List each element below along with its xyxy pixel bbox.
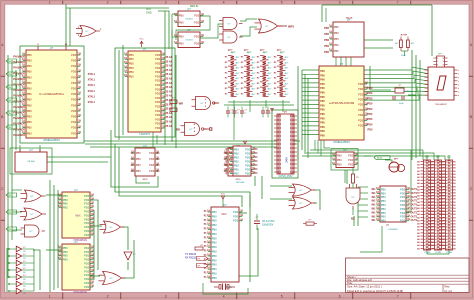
svg-text:PB0: PB0 xyxy=(27,98,32,102)
svg-text:PA0/AD0: PA0/AD0 xyxy=(13,116,25,120)
svg-text:PD0: PD0 xyxy=(245,167,251,171)
svg-text:PB0: PB0 xyxy=(334,37,339,41)
svg-text:PB0: PB0 xyxy=(63,194,68,198)
svg-text:PB0: PB0 xyxy=(212,245,217,249)
svg-text:P00: P00 xyxy=(320,126,325,129)
svg-text:XTAL1: XTAL1 xyxy=(88,90,96,93)
svg-text:Id: 1/1: Id: 1/1 xyxy=(445,289,453,293)
svg-text:PD0: PD0 xyxy=(84,273,90,277)
svg-text:4N35: 4N35 xyxy=(235,179,241,181)
svg-text:1n: 1n xyxy=(237,112,239,114)
svg-text:PB0: PB0 xyxy=(324,33,329,36)
svg-text:PB0: PB0 xyxy=(212,263,217,267)
svg-text:1: 1 xyxy=(49,295,51,299)
svg-text:1: 1 xyxy=(49,0,51,4)
svg-text:PB0: PB0 xyxy=(27,103,32,107)
svg-text:PB0: PB0 xyxy=(27,87,32,91)
svg-text:PB0: PB0 xyxy=(27,126,32,130)
svg-text:74HC573: 74HC573 xyxy=(139,132,151,136)
svg-text:25 A8: 25 A8 xyxy=(166,69,173,72)
svg-text:PB0: PB0 xyxy=(212,223,217,227)
svg-text:PD0: PD0 xyxy=(245,163,251,167)
svg-text:P00: P00 xyxy=(320,83,325,86)
svg-text:PB0: PB0 xyxy=(337,162,342,166)
svg-text:25 A8: 25 A8 xyxy=(166,86,173,89)
svg-text:PD0: PD0 xyxy=(84,229,90,233)
svg-text:Title:: Title: xyxy=(347,281,353,285)
svg-text:PB0: PB0 xyxy=(129,57,134,61)
svg-text:CP 4u7-25V: CP 4u7-25V xyxy=(262,221,275,223)
svg-text:ULN2803: ULN2803 xyxy=(388,229,398,231)
svg-text:B: B xyxy=(470,115,472,119)
svg-text:PD0: PD0 xyxy=(358,98,364,102)
svg-text:PB0: PB0 xyxy=(212,250,217,254)
svg-text:PB0: PB0 xyxy=(27,120,32,124)
svg-text:PD0: PD0 xyxy=(155,113,161,117)
svg-text:1A: 1A xyxy=(130,152,133,155)
svg-text:PD0: PD0 xyxy=(149,163,155,167)
svg-text:PD0: PD0 xyxy=(155,105,161,109)
svg-text:PB0: PB0 xyxy=(234,147,239,151)
svg-text:74HC4051N: 74HC4051N xyxy=(73,291,87,294)
svg-text:25 A8: 25 A8 xyxy=(166,121,173,124)
svg-text:IN1: IN1 xyxy=(372,215,377,218)
svg-text:U?: U? xyxy=(143,47,147,51)
svg-text:PB0: PB0 xyxy=(212,228,217,232)
svg-text:CONN: CONN xyxy=(424,252,430,254)
svg-text:6: 6 xyxy=(339,295,341,299)
svg-text:XTAL1: XTAL1 xyxy=(88,101,96,104)
svg-text:IN1: IN1 xyxy=(372,188,377,191)
svg-text:PB0: PB0 xyxy=(324,39,329,42)
svg-text:PB0: PB0 xyxy=(129,70,134,74)
svg-text:PD0: PD0 xyxy=(368,87,373,90)
svg-text:PD0: PD0 xyxy=(84,258,90,262)
svg-text:78L05: 78L05 xyxy=(346,17,353,20)
svg-text:U?: U? xyxy=(187,28,191,32)
svg-text:U?: U? xyxy=(50,46,54,50)
svg-text:PB0: PB0 xyxy=(334,25,339,29)
svg-text:25 A8: 25 A8 xyxy=(166,82,173,85)
svg-text:P00: P00 xyxy=(320,135,325,138)
svg-text:RX RS232: RX RS232 xyxy=(185,257,197,260)
svg-text:PD0: PD0 xyxy=(155,83,161,87)
svg-text:KiCad E.D.A. eeschema (2010-0: KiCad E.D.A. eeschema (2010-07-14 BZR 24… xyxy=(347,289,403,293)
svg-text:Size: A4 | Date: 12 jun 2011 |: Size: A4 | Date: 12 jun 2011 | xyxy=(347,285,382,289)
svg-text:PD0: PD0 xyxy=(71,59,77,63)
svg-text:PB0: PB0 xyxy=(212,232,217,236)
svg-text:IN1: IN1 xyxy=(372,219,377,222)
svg-text:PD0: PD0 xyxy=(71,126,77,130)
svg-text:5: 5 xyxy=(281,295,283,299)
svg-text:U?: U? xyxy=(74,188,78,192)
svg-text:PB0: PB0 xyxy=(334,43,339,47)
svg-text:PD0: PD0 xyxy=(84,233,90,237)
svg-text:PD0: PD0 xyxy=(84,250,90,254)
svg-text:MAX: MAX xyxy=(222,213,227,216)
svg-text:MIDI-IN: MIDI-IN xyxy=(190,5,199,8)
svg-text:RP?: RP? xyxy=(260,50,265,52)
svg-text:PD0: PD0 xyxy=(155,96,161,100)
svg-text:PD0: PD0 xyxy=(71,103,77,107)
svg-text:PD0: PD0 xyxy=(84,213,90,217)
svg-text:PD0: PD0 xyxy=(194,20,200,24)
svg-text:PA0/AD0: PA0/AD0 xyxy=(13,99,25,103)
svg-text:25 A8: 25 A8 xyxy=(166,65,173,68)
svg-text:PD0: PD0 xyxy=(84,265,90,269)
svg-text:PD0: PD0 xyxy=(71,120,77,124)
svg-text:PD0: PD0 xyxy=(84,246,90,250)
svg-text:IN1: IN1 xyxy=(372,200,377,203)
svg-text:PB0: PB0 xyxy=(212,267,217,271)
svg-text:5: 5 xyxy=(281,0,283,4)
svg-text:RD: RD xyxy=(176,128,180,132)
svg-text:RP?: RP? xyxy=(280,53,285,55)
svg-text:PD0: PD0 xyxy=(71,131,77,135)
svg-text:VCC: VCC xyxy=(436,156,441,158)
svg-text:PD0: PD0 xyxy=(155,53,161,57)
svg-text:PB0: PB0 xyxy=(212,214,217,218)
svg-text:PD0: PD0 xyxy=(71,98,77,102)
svg-text:22pF: 22pF xyxy=(399,103,404,105)
svg-text:U?: U? xyxy=(223,203,227,207)
svg-text:PD0: PD0 xyxy=(368,118,373,121)
svg-text:PD0: PD0 xyxy=(71,87,77,91)
svg-text:PD0: PD0 xyxy=(149,151,155,155)
svg-text:20MHz: 20MHz xyxy=(405,91,412,93)
svg-text:1n: 1n xyxy=(230,112,232,114)
svg-text:1A: 1A xyxy=(130,170,133,173)
svg-text:PD0: PD0 xyxy=(245,151,251,155)
svg-text:BUZZ: BUZZ xyxy=(377,157,383,159)
svg-text:PA0/AD0: PA0/AD0 xyxy=(13,105,25,109)
svg-text:PD0: PD0 xyxy=(400,199,406,203)
svg-text:22pF: 22pF xyxy=(401,55,406,57)
svg-text:PD0: PD0 xyxy=(84,217,90,221)
svg-text:PD0: PD0 xyxy=(71,109,77,113)
svg-text:PD0: PD0 xyxy=(84,194,90,198)
svg-text:PB0: PB0 xyxy=(212,276,217,280)
svg-text:PD0: PD0 xyxy=(400,211,406,215)
svg-text:PD0: PD0 xyxy=(84,210,90,214)
svg-text:CONN_15X2: CONN_15X2 xyxy=(279,175,294,178)
svg-text:PD0: PD0 xyxy=(245,147,251,151)
svg-text:PB0: PB0 xyxy=(234,151,239,155)
svg-text:PD0: PD0 xyxy=(71,92,77,96)
svg-text:PD0: PD0 xyxy=(368,113,373,116)
svg-text:P00: P00 xyxy=(320,87,325,90)
svg-text:PB0: PB0 xyxy=(234,167,239,171)
svg-text:XTAL1: XTAL1 xyxy=(88,73,96,76)
svg-text:PD0: PD0 xyxy=(368,92,373,95)
svg-text:DATA: DATA xyxy=(286,157,289,163)
svg-text:PB0: PB0 xyxy=(63,198,68,202)
svg-text:PD0: PD0 xyxy=(149,157,155,161)
svg-text:25 A8: 25 A8 xyxy=(166,112,173,115)
svg-text:PB0: PB0 xyxy=(381,215,386,219)
svg-text:25 A8: 25 A8 xyxy=(166,56,173,59)
svg-text:6: 6 xyxy=(339,0,341,4)
svg-text:PD0: PD0 xyxy=(71,70,77,74)
svg-text:PB0: PB0 xyxy=(381,203,386,207)
svg-text:CONN: CONN xyxy=(446,252,452,254)
svg-text:RP?: RP? xyxy=(247,53,252,55)
svg-text:PB0: PB0 xyxy=(27,70,32,74)
svg-text:PB0: PB0 xyxy=(129,74,134,78)
svg-text:PD0: PD0 xyxy=(400,207,406,211)
svg-text:PB0: PB0 xyxy=(381,199,386,203)
svg-text:PD0: PD0 xyxy=(155,109,161,113)
svg-text:PB0: PB0 xyxy=(179,41,184,45)
svg-text:PD0: PD0 xyxy=(194,41,200,45)
svg-text:PB0: PB0 xyxy=(63,202,68,206)
svg-text:VCC: VCC xyxy=(139,39,144,41)
svg-text:PD0: PD0 xyxy=(233,210,239,214)
svg-text:PA0/AD0: PA0/AD0 xyxy=(13,83,25,87)
svg-text:PB0: PB0 xyxy=(212,219,217,223)
svg-text:IN1: IN1 xyxy=(372,211,377,214)
svg-text:74LS74: 74LS74 xyxy=(185,40,193,42)
svg-text:7: 7 xyxy=(397,295,399,299)
svg-text:PD0: PD0 xyxy=(84,262,90,266)
svg-text:PD0: PD0 xyxy=(358,92,364,96)
svg-text:PB0: PB0 xyxy=(63,258,68,262)
svg-text:PD0: PD0 xyxy=(84,221,90,225)
svg-text:RP?: RP? xyxy=(277,50,282,52)
svg-text:PD0: PD0 xyxy=(155,70,161,74)
svg-text:PD0: PD0 xyxy=(358,103,364,107)
svg-text:74LS74: 74LS74 xyxy=(185,19,193,21)
svg-text:4: 4 xyxy=(223,295,225,299)
svg-text:PB0: PB0 xyxy=(381,191,386,195)
svg-text:PD0: PD0 xyxy=(84,202,90,206)
svg-text:74LS164: 74LS164 xyxy=(236,182,246,184)
svg-text:PD0: PD0 xyxy=(400,187,406,191)
svg-text:PD0: PD0 xyxy=(358,87,364,91)
svg-text:PB0: PB0 xyxy=(381,195,386,199)
svg-text:IC xxATMEGA8515xx: IC xxATMEGA8515xx xyxy=(39,92,65,96)
svg-text:XTAL1: XTAL1 xyxy=(88,79,96,82)
svg-text:PD0: PD0 xyxy=(400,215,406,219)
svg-text:PD0: PD0 xyxy=(155,79,161,83)
svg-text:PB0: PB0 xyxy=(27,92,32,96)
svg-text:PB0: PB0 xyxy=(212,236,217,240)
svg-text:1A: 1A xyxy=(130,164,133,167)
svg-text:3: 3 xyxy=(165,0,167,4)
svg-text:PB0: PB0 xyxy=(63,250,68,254)
svg-text:PB0: PB0 xyxy=(129,62,134,66)
svg-text:PD0: PD0 xyxy=(368,97,373,100)
svg-text:VCC: VCC xyxy=(447,156,452,158)
svg-text:PB0: PB0 xyxy=(63,206,68,210)
svg-text:PD0: PD0 xyxy=(84,281,90,285)
svg-text:PB0: PB0 xyxy=(337,158,342,162)
svg-text:PD0: PD0 xyxy=(400,203,406,207)
svg-text:PD0: PD0 xyxy=(155,62,161,66)
svg-text:PB0: PB0 xyxy=(324,45,329,48)
svg-text:PD0: PD0 xyxy=(71,75,77,79)
svg-text:PD0: PD0 xyxy=(233,219,239,223)
svg-text:PA0/AD0: PA0/AD0 xyxy=(13,94,25,98)
svg-text:PB0: PB0 xyxy=(234,155,239,159)
svg-text:PD0: PD0 xyxy=(245,159,251,163)
svg-text:PD0: PD0 xyxy=(84,254,90,258)
svg-text:PB0: PB0 xyxy=(324,51,329,54)
svg-text:PB0: PB0 xyxy=(63,246,68,250)
svg-text:WR: WR xyxy=(179,102,183,106)
svg-text:RP?: RP? xyxy=(228,50,233,52)
svg-text:PD0: PD0 xyxy=(155,117,161,121)
svg-text:PB0: PB0 xyxy=(27,81,32,85)
svg-text:PD0: PD0 xyxy=(149,169,155,173)
svg-text:PD0: PD0 xyxy=(71,64,77,68)
svg-text:ATMEGA8515: ATMEGA8515 xyxy=(43,138,60,142)
svg-text:P00: P00 xyxy=(320,113,325,116)
svg-text:PB0: PB0 xyxy=(27,64,32,68)
svg-text:Rev:: Rev: xyxy=(445,285,451,289)
svg-text:RP?: RP? xyxy=(263,53,268,55)
svg-text:PD0: PD0 xyxy=(155,122,161,126)
svg-text:IN1: IN1 xyxy=(372,196,377,199)
svg-text:B: B xyxy=(1,115,3,119)
svg-text:25 A8: 25 A8 xyxy=(166,73,173,76)
svg-text:U?: U? xyxy=(29,148,33,152)
svg-text:U?: U? xyxy=(74,240,78,244)
svg-text:SP?: SP? xyxy=(394,159,399,161)
svg-text:PD0: PD0 xyxy=(400,195,406,199)
svg-text:PD0: PD0 xyxy=(155,57,161,61)
svg-text:XTAL1: XTAL1 xyxy=(88,95,96,98)
svg-text:PA0/AD0: PA0/AD0 xyxy=(13,133,25,137)
svg-text:PD0: PD0 xyxy=(71,53,77,57)
svg-text:PA0/AD0: PA0/AD0 xyxy=(13,66,25,70)
svg-text:PB0: PB0 xyxy=(212,254,217,258)
svg-text:2: 2 xyxy=(107,0,109,4)
svg-text:RP?: RP? xyxy=(244,50,249,52)
svg-text:PD0: PD0 xyxy=(245,171,251,175)
svg-text:P00: P00 xyxy=(320,100,325,103)
svg-text:PD0: PD0 xyxy=(400,191,406,195)
svg-text:4: 4 xyxy=(223,0,225,4)
svg-text:P00: P00 xyxy=(320,104,325,107)
svg-text:PB0: PB0 xyxy=(27,131,32,135)
svg-text:PB0: PB0 xyxy=(334,31,339,35)
svg-text:PB0: PB0 xyxy=(27,109,32,113)
svg-text:PD0: PD0 xyxy=(348,153,354,157)
svg-text:PD0: PD0 xyxy=(155,100,161,104)
svg-text:PD0: PD0 xyxy=(155,92,161,96)
svg-text:PD0: PD0 xyxy=(194,34,200,38)
svg-text:PB0: PB0 xyxy=(179,34,184,38)
svg-text:PD0: PD0 xyxy=(155,87,161,91)
svg-text:PD0: PD0 xyxy=(84,198,90,202)
svg-text:PB0: PB0 xyxy=(136,163,141,167)
svg-text:2: 2 xyxy=(107,295,109,299)
svg-text:IN1: IN1 xyxy=(372,208,377,211)
svg-text:R? R?: R? R? xyxy=(401,35,408,37)
svg-text:1A: 1A xyxy=(130,158,133,161)
svg-text:PD0: PD0 xyxy=(368,108,373,111)
svg-text:PB0: PB0 xyxy=(129,66,134,70)
svg-text:PB0: PB0 xyxy=(324,27,329,30)
svg-text:PB0: PB0 xyxy=(27,59,32,63)
svg-text:PB0: PB0 xyxy=(381,187,386,191)
svg-text:PD0: PD0 xyxy=(84,277,90,281)
svg-text:PD0: PD0 xyxy=(71,115,77,119)
svg-text:BZ: BZ xyxy=(351,217,355,221)
svg-text:PD0: PD0 xyxy=(84,269,90,273)
svg-text:PB0: PB0 xyxy=(63,254,68,258)
svg-text:PB0: PB0 xyxy=(234,159,239,163)
svg-text:IN1: IN1 xyxy=(372,192,377,195)
svg-text:P00: P00 xyxy=(320,130,325,133)
svg-text:PB0: PB0 xyxy=(337,153,342,157)
svg-text:PD0: PD0 xyxy=(245,155,251,159)
svg-text:PB0: PB0 xyxy=(381,207,386,211)
svg-text:IN1: IN1 xyxy=(372,204,377,207)
svg-text:P00: P00 xyxy=(320,117,325,120)
svg-text:PD0: PD0 xyxy=(155,66,161,70)
svg-text:PB0: PB0 xyxy=(136,151,141,155)
svg-text:74LS00: 74LS00 xyxy=(27,161,35,163)
svg-text:PD0: PD0 xyxy=(368,103,373,106)
svg-text:PD0: PD0 xyxy=(84,225,90,229)
svg-text:P00: P00 xyxy=(320,92,325,95)
svg-text:VCC: VCC xyxy=(221,194,226,196)
svg-text:PB0: PB0 xyxy=(129,53,134,57)
svg-text:PD0: PD0 xyxy=(155,74,161,78)
svg-text:PD0: PD0 xyxy=(348,158,354,162)
svg-text:3: 3 xyxy=(165,295,167,299)
svg-text:7SEGMENT: 7SEGMENT xyxy=(435,104,448,106)
svg-text:1n: 1n xyxy=(244,112,246,114)
svg-text:PB0: PB0 xyxy=(136,157,141,161)
svg-text:PD0: PD0 xyxy=(358,113,364,117)
svg-text:GND: GND xyxy=(146,12,152,15)
svg-text:RP?: RP? xyxy=(231,53,236,55)
svg-text:PD0: PD0 xyxy=(400,219,406,223)
svg-text:25 A8: 25 A8 xyxy=(166,60,173,63)
svg-text:ATMEGA8515: ATMEGA8515 xyxy=(333,140,350,144)
svg-text:PD0: PD0 xyxy=(358,124,364,128)
svg-text:U?: U? xyxy=(340,62,344,66)
svg-text:PB0: PB0 xyxy=(136,169,141,173)
svg-text:PB0: PB0 xyxy=(234,163,239,167)
svg-text:100uF/25V: 100uF/25V xyxy=(262,225,274,227)
svg-text:PA0/AD0: PA0/AD0 xyxy=(13,60,25,64)
svg-text:PB0: PB0 xyxy=(212,210,217,214)
svg-text:PB0: PB0 xyxy=(381,219,386,223)
svg-text:PD0: PD0 xyxy=(194,13,200,17)
svg-text:U?: U? xyxy=(143,144,147,148)
svg-text:P00: P00 xyxy=(320,79,325,82)
svg-text:PB0: PB0 xyxy=(27,115,32,119)
svg-text:PD0: PD0 xyxy=(84,285,90,289)
svg-text:4N35: 4N35 xyxy=(142,179,148,181)
svg-text:PD0: PD0 xyxy=(348,162,354,166)
svg-text:25 A8: 25 A8 xyxy=(166,125,173,128)
svg-text:PD0: PD0 xyxy=(368,123,373,126)
svg-text:PB0: PB0 xyxy=(27,75,32,79)
svg-text:PD0: PD0 xyxy=(358,82,364,86)
svg-text:PB0: PB0 xyxy=(212,258,217,262)
svg-text:PB0: PB0 xyxy=(212,241,217,245)
svg-text:PB0: PB0 xyxy=(234,171,239,175)
svg-text:PB0: PB0 xyxy=(179,13,184,17)
svg-text:PA0/AD0: PA0/AD0 xyxy=(13,55,25,59)
svg-text:PA0/AD0: PA0/AD0 xyxy=(13,77,25,81)
svg-text:PB0: PB0 xyxy=(27,53,32,57)
